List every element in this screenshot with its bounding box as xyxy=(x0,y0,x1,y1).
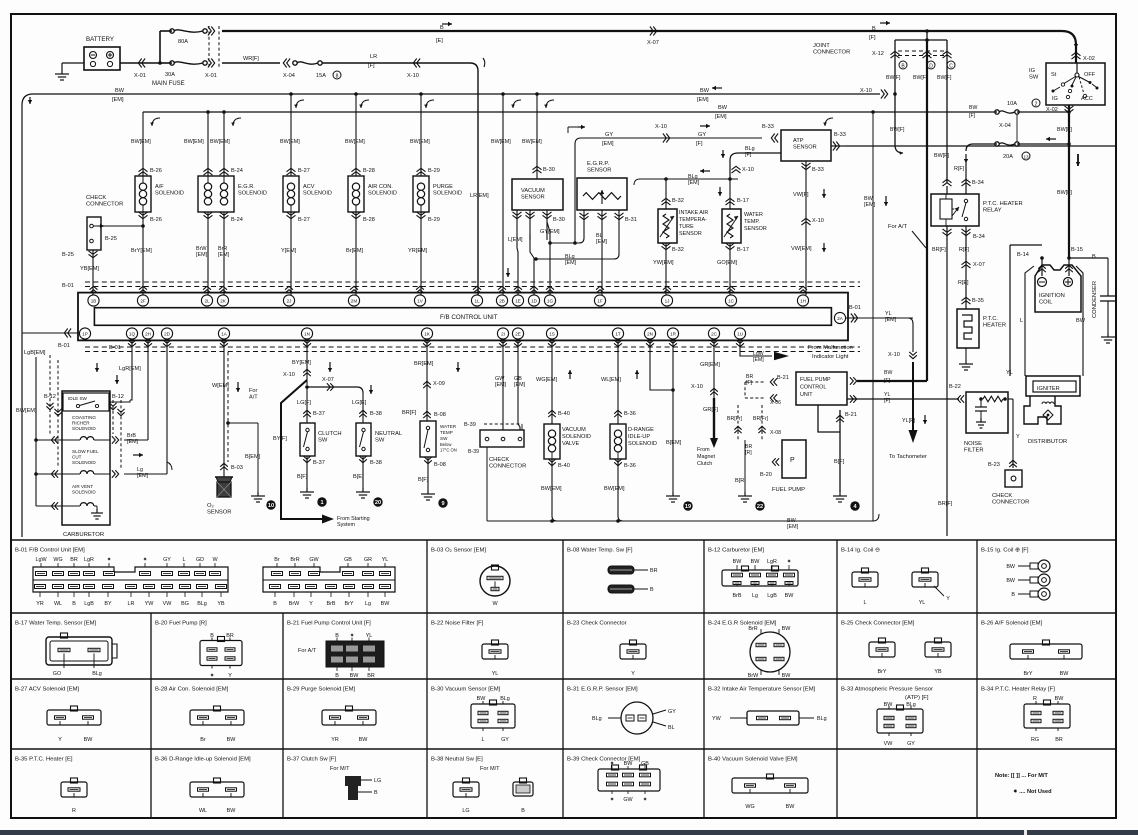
svg-text:BW: BW xyxy=(786,804,796,810)
water temperature sensor B-17 xyxy=(729,179,731,209)
svg-text:⁕: ⁕ xyxy=(210,673,215,679)
wire check connector to ground bus xyxy=(486,447,488,521)
svg-text:YL: YL xyxy=(1006,370,1013,376)
svg-text:[F]: [F] xyxy=(696,141,703,147)
svg-text:BLg: BLg xyxy=(745,146,755,152)
wire 1P exit left xyxy=(22,332,80,334)
wire BW[F] heavy from joint connector D to FPCU xyxy=(857,380,927,382)
svg-text:⁕: ⁕ xyxy=(787,559,792,565)
svg-text:[F]: [F] xyxy=(746,380,753,386)
svg-text:X-12: X-12 xyxy=(872,51,884,57)
svg-text:B-17: B-17 xyxy=(737,247,749,253)
svg-text:COIL: COIL xyxy=(1039,300,1053,306)
svg-text:UNIT: UNIT xyxy=(800,392,813,398)
svg-text:SOLENOID: SOLENOID xyxy=(628,441,657,447)
svg-text:CONTROL: CONTROL xyxy=(800,384,826,390)
noise filter B-22 xyxy=(966,392,1008,433)
coasting richer output to 2H xyxy=(112,436,115,444)
svg-text:SENSOR: SENSOR xyxy=(207,510,231,516)
svg-text:2A: 2A xyxy=(837,316,844,321)
svg-text:BLg: BLg xyxy=(688,174,698,180)
B-01 connector strip left block xyxy=(33,567,228,592)
svg-text:B-39: B-39 xyxy=(468,449,479,455)
svg-text:[EM]: [EM] xyxy=(596,239,608,245)
svg-text:B[F]: B[F] xyxy=(297,474,308,480)
svg-text:1V: 1V xyxy=(417,298,424,303)
svg-text:B-28: B-28 xyxy=(363,217,375,223)
wire R[F] down to PTC relay xyxy=(965,163,967,194)
wire LR[F] to X-10 xyxy=(322,62,470,64)
svg-text:B-03 O₂ Sensor [EM]: B-03 O₂ Sensor [EM] xyxy=(431,548,486,554)
svg-text:B-33: B-33 xyxy=(812,167,824,173)
svg-text:LgB: LgB xyxy=(84,601,94,607)
wire B-22 line FPCU to noise filter xyxy=(847,398,959,400)
svg-text:From Malfunction: From Malfunction xyxy=(808,345,853,351)
wires into FPCU left xyxy=(774,378,777,386)
svg-text:X-10: X-10 xyxy=(888,352,900,358)
svg-text:WR[F]: WR[F] xyxy=(243,56,259,62)
svg-text:PURGE: PURGE xyxy=(433,184,453,190)
svg-text:NOISE: NOISE xyxy=(964,441,982,447)
svg-text:2K: 2K xyxy=(220,298,227,303)
svg-text:BW[F]: BW[F] xyxy=(934,153,949,159)
svg-text:B-35: B-35 xyxy=(972,298,984,304)
ground water temp sw xyxy=(427,490,429,494)
svg-text:B-01: B-01 xyxy=(849,305,861,311)
svg-text:VW[EM]: VW[EM] xyxy=(791,246,812,252)
svg-text:L[EM]: L[EM] xyxy=(508,237,523,243)
svg-text:GO[EM]: GO[EM] xyxy=(717,260,738,266)
svg-text:WG[EM]: WG[EM] xyxy=(536,377,558,383)
svg-text:[EM]: [EM] xyxy=(602,141,614,147)
svg-text:2I: 2I xyxy=(501,331,505,336)
svg-text:For A/T: For A/T xyxy=(298,648,317,654)
ground PTC heater xyxy=(965,360,967,364)
svg-text:[F]: [F] xyxy=(884,398,891,404)
svg-text:RICHER: RICHER xyxy=(72,420,90,425)
svg-text:LR[EM]: LR[EM] xyxy=(470,193,489,199)
F/B control unit xyxy=(78,293,848,341)
svg-text:D: D xyxy=(929,64,933,70)
IG switch xyxy=(1046,63,1105,105)
svg-text:X-10: X-10 xyxy=(742,167,754,173)
svg-text:X-07: X-07 xyxy=(973,262,985,268)
svg-text:B-03: B-03 xyxy=(231,465,243,471)
wire drop to A/F solenoid xyxy=(142,112,144,176)
svg-text:COASTING: COASTING xyxy=(72,415,96,420)
wire WR[F] 15A branch xyxy=(222,62,280,64)
svg-text:CHECK: CHECK xyxy=(86,195,106,201)
svg-text:A/F: A/F xyxy=(155,184,164,190)
svg-text:BR[F]: BR[F] xyxy=(402,410,417,416)
svg-text:LgR: LgR xyxy=(767,559,777,565)
svg-text:1S: 1S xyxy=(549,331,555,336)
table grid xyxy=(11,539,1116,541)
svg-text:⁕: ⁕ xyxy=(610,797,615,803)
wire LgR[EM] from 1Q xyxy=(131,339,133,385)
svg-text:ATP: ATP xyxy=(793,138,804,144)
svg-text:Y: Y xyxy=(228,673,232,679)
connector X-01 after fuses (dashed gang) xyxy=(208,27,211,36)
svg-text:B-30: B-30 xyxy=(553,217,565,223)
svg-text:B-36: B-36 xyxy=(624,411,636,417)
svg-text:R: R xyxy=(72,808,76,814)
svg-text:BW: BW xyxy=(884,702,894,708)
solenoid E.G.R. B-24 xyxy=(204,172,213,175)
svg-text:⁕: ⁕ xyxy=(643,797,648,803)
svg-text:B-23: B-23 xyxy=(988,462,1000,468)
svg-text:B-21: B-21 xyxy=(845,412,857,418)
svg-text:To Tachometer: To Tachometer xyxy=(889,454,927,460)
svg-text:1L: 1L xyxy=(474,298,480,303)
svg-text:AIR VENT: AIR VENT xyxy=(72,484,93,489)
svg-text:B: B xyxy=(1092,254,1096,260)
wire battery to X-01 xyxy=(120,62,160,64)
svg-text:SENSOR: SENSOR xyxy=(679,231,702,237)
svg-text:LgW: LgW xyxy=(35,557,47,563)
svg-text:GW: GW xyxy=(623,797,633,803)
svg-text:YL: YL xyxy=(885,311,892,317)
svg-text:X-10: X-10 xyxy=(283,372,295,378)
svg-text:B-23 Check Connector: B-23 Check Connector xyxy=(567,621,627,627)
svg-text:1K: 1K xyxy=(424,331,431,336)
svg-text:L: L xyxy=(1020,318,1023,324)
svg-text:YL: YL xyxy=(919,600,926,606)
svg-text:B-20 Fuel Pump [R]: B-20 Fuel Pump [R] xyxy=(155,621,207,627)
svg-text:B-36: B-36 xyxy=(624,463,636,469)
svg-text:YL: YL xyxy=(382,557,389,563)
svg-text:X-10: X-10 xyxy=(860,88,872,94)
svg-text:B-39: B-39 xyxy=(464,422,476,428)
svg-text:⁕ .... Not Used: ⁕ .... Not Used xyxy=(1013,789,1052,795)
wires GW GB to check connector xyxy=(502,339,504,430)
svg-text:GW: GW xyxy=(309,557,319,563)
wire W[EM] from 1A to O2 sensor xyxy=(223,339,225,477)
svg-text:B: B xyxy=(273,601,277,607)
wire B[E] heavy top line xyxy=(222,30,1062,32)
svg-text:1B: 1B xyxy=(91,298,97,303)
svg-text:10: 10 xyxy=(268,503,274,509)
svg-text:BATTERY: BATTERY xyxy=(86,36,114,43)
svg-text:BW[EM]: BW[EM] xyxy=(280,139,300,145)
svg-text:BW: BW xyxy=(359,737,369,743)
svg-text:SOLENOID: SOLENOID xyxy=(238,190,267,196)
svg-text:1A: 1A xyxy=(221,331,228,336)
connector X-10 xyxy=(417,59,420,68)
svg-text:BLg: BLg xyxy=(500,696,510,702)
svg-text:B-38: B-38 xyxy=(370,411,382,417)
wire BW[EM] bus lower xyxy=(143,111,997,113)
svg-text:BR[Fr]: BR[Fr] xyxy=(727,416,743,422)
svg-text:2M: 2M xyxy=(351,298,358,303)
svg-text:X-09: X-09 xyxy=(433,381,445,387)
svg-text:B-14 Ig. Coil ⊖: B-14 Ig. Coil ⊖ xyxy=(841,548,880,554)
wire BrB from 2H xyxy=(147,339,149,440)
svg-text:IGNITION: IGNITION xyxy=(1039,293,1065,299)
svg-text:BW: BW xyxy=(1060,671,1070,677)
svg-text:B-14: B-14 xyxy=(1017,252,1029,258)
svg-text:[F]: [F] xyxy=(869,35,876,41)
svg-text:Y: Y xyxy=(1016,434,1020,440)
svg-text:B-40 Vacuum Solenoid Valve [EM: B-40 Vacuum Solenoid Valve [EM] xyxy=(708,757,798,763)
svg-text:Lg: Lg xyxy=(137,467,143,473)
svg-text:GD: GD xyxy=(196,557,204,563)
svg-text:Y: Y xyxy=(946,596,950,602)
svg-text:B[EM]: B[EM] xyxy=(666,440,682,446)
svg-text:B-21 Fuel Pump Control Unit [F: B-21 Fuel Pump Control Unit [F] xyxy=(287,621,371,627)
svg-text:BW: BW xyxy=(1076,318,1086,324)
wire X-07 branch to neutral sw xyxy=(305,385,309,389)
svg-text:2: 2 xyxy=(1035,102,1038,108)
svg-text:VALVE: VALVE xyxy=(562,441,579,447)
svg-text:SLOW FUEL: SLOW FUEL xyxy=(72,449,99,454)
svg-text:2B: 2B xyxy=(499,298,505,303)
svg-text:X-10: X-10 xyxy=(655,124,667,130)
svg-text:Br: Br xyxy=(200,737,206,743)
svg-text:BW: BW xyxy=(227,808,237,814)
svg-text:B-27 ACV Solenoid [EM]: B-27 ACV Solenoid [EM] xyxy=(15,687,80,693)
svg-text:X-10: X-10 xyxy=(691,384,703,390)
svg-text:BW: BW xyxy=(733,559,743,565)
connector X-07 on top line xyxy=(650,27,653,36)
svg-text:YR: YR xyxy=(36,601,44,607)
svg-text:RELAY: RELAY xyxy=(983,208,1002,214)
svg-text:YB: YB xyxy=(217,601,225,607)
svg-text:B-26: B-26 xyxy=(150,217,162,223)
svg-text:B-40: B-40 xyxy=(558,463,570,469)
svg-text:GY: GY xyxy=(907,741,915,747)
svg-text:1J: 1J xyxy=(665,298,670,303)
svg-text:NEUTRAL: NEUTRAL xyxy=(375,431,403,437)
solenoid PURGE B-29 xyxy=(417,172,426,175)
svg-text:20A: 20A xyxy=(1003,154,1013,160)
svg-text:BR: BR xyxy=(650,568,658,574)
svg-text:SW: SW xyxy=(318,438,328,444)
svg-text:LR: LR xyxy=(128,601,135,607)
svg-text:GY: GY xyxy=(605,132,613,138)
svg-text:LG: LG xyxy=(374,778,381,784)
wire B-25 down YB[EM] xyxy=(89,251,98,254)
svg-text:For: For xyxy=(249,388,258,394)
svg-text:WL[EM]: WL[EM] xyxy=(601,377,621,383)
water temp switch B-08 xyxy=(420,421,436,457)
svg-text:GR[F]: GR[F] xyxy=(703,407,718,413)
svg-text:SENSOR: SENSOR xyxy=(521,194,545,200)
svg-text:GO: GO xyxy=(53,671,61,677)
svg-text:HEATER: HEATER xyxy=(983,323,1006,329)
svg-text:LgR: LgR xyxy=(84,557,94,563)
svg-text:Y: Y xyxy=(309,601,313,607)
svg-text:BW: BW xyxy=(1006,578,1016,584)
fuse 15A xyxy=(293,61,297,65)
svg-text:1F: 1F xyxy=(597,298,603,303)
svg-text:B: B xyxy=(521,808,525,814)
svg-text:SENSOR: SENSOR xyxy=(744,226,767,232)
svg-text:BW: BW xyxy=(864,196,874,202)
svg-text:BW[EM]: BW[EM] xyxy=(131,139,151,145)
fuse 30A MAIN FUSE xyxy=(160,62,172,64)
svg-text:B-30: B-30 xyxy=(543,167,555,173)
svg-text:B-29 Purge Solenoid [EM]: B-29 Purge Solenoid [EM] xyxy=(287,687,355,693)
svg-text:15A: 15A xyxy=(316,73,326,79)
svg-text:B-27: B-27 xyxy=(298,217,310,223)
svg-text:2F: 2F xyxy=(140,298,146,303)
svg-text:80A: 80A xyxy=(178,39,188,45)
svg-text:P: P xyxy=(790,457,795,464)
svg-text:Below: Below xyxy=(440,442,452,447)
svg-text:17°C ON: 17°C ON xyxy=(440,448,457,453)
wire ATP output to right xyxy=(846,145,1116,147)
svg-text:BW: BW xyxy=(381,601,391,607)
svg-text:GR: GR xyxy=(364,557,372,563)
svg-text:B-25: B-25 xyxy=(105,236,117,242)
igniter xyxy=(1026,376,1080,396)
wire drops from buses to solenoids xyxy=(207,112,209,176)
svg-text:9: 9 xyxy=(441,501,444,507)
svg-text:WATER: WATER xyxy=(744,212,763,218)
svg-text:X-08: X-08 xyxy=(770,430,781,436)
svg-text:B-36 D-Range Idle-up Solenoid: B-36 D-Range Idle-up Solenoid [EM] xyxy=(155,757,251,763)
svg-text:B-24: B-24 xyxy=(231,217,243,223)
svg-text:[EM]: [EM] xyxy=(565,260,577,266)
slow fuel cut output to 2D xyxy=(112,470,115,478)
dashed B-01 boundary below bottom pins xyxy=(85,346,860,348)
svg-text:B-01: B-01 xyxy=(109,345,121,351)
svg-text:B-29: B-29 xyxy=(428,217,440,223)
svg-text:RG: RG xyxy=(1031,737,1039,743)
svg-text:FILTER: FILTER xyxy=(964,448,984,454)
svg-text:BW: BW xyxy=(884,370,892,376)
svg-text:BW[F]: BW[F] xyxy=(886,75,901,81)
svg-text:[EM]: [EM] xyxy=(864,202,876,208)
wires vacuum sensor to pins xyxy=(517,240,518,295)
wire GR[EM] from 2C to magnet clutch xyxy=(713,339,715,400)
svg-text:SOLENOID: SOLENOID xyxy=(155,190,184,196)
svg-text:E.G.R.P.: E.G.R.P. xyxy=(587,161,610,167)
wire BLg[EM] junction line xyxy=(640,178,738,180)
svg-text:L: L xyxy=(183,557,186,563)
svg-text:IDLE-UP: IDLE-UP xyxy=(628,434,650,440)
svg-text:BW[F]: BW[F] xyxy=(1057,127,1072,133)
fuel pump B-20 xyxy=(776,458,779,466)
svg-text:O₂: O₂ xyxy=(207,503,214,509)
svg-text:B-25 Check Connector [EM]: B-25 Check Connector [EM] xyxy=(841,621,915,627)
bottom dark bar xyxy=(0,830,1138,835)
top pin row of F/B control unit xyxy=(88,295,99,306)
svg-text:B: B xyxy=(872,26,876,32)
svg-text:BW: BW xyxy=(969,105,977,111)
svg-text:BW: BW xyxy=(700,88,710,94)
svg-text:X-10: X-10 xyxy=(812,218,824,224)
svg-text:BR: BR xyxy=(1055,737,1063,743)
svg-text:L: L xyxy=(482,737,485,743)
svg-text:B-34: B-34 xyxy=(973,234,985,240)
svg-text:[EM]: [EM] xyxy=(495,382,507,388)
svg-text:B-32: B-32 xyxy=(672,247,684,253)
svg-text:X-04: X-04 xyxy=(283,73,295,79)
svg-text:1Q: 1Q xyxy=(129,331,136,336)
svg-text:BW: BW xyxy=(624,761,634,767)
svg-text:B-22: B-22 xyxy=(949,384,961,390)
connector B-35 xyxy=(962,301,971,304)
svg-text:R[F]: R[F] xyxy=(959,247,970,253)
svg-text:20: 20 xyxy=(375,500,381,506)
svg-text:X-01: X-01 xyxy=(205,73,217,79)
ground in carburetor xyxy=(96,506,98,509)
svg-text:WATER: WATER xyxy=(440,424,457,429)
connector X-04 xyxy=(287,59,290,68)
svg-text:B: B xyxy=(440,25,444,31)
ground O2 xyxy=(257,492,259,496)
svg-text:GY: GY xyxy=(698,132,706,138)
svg-text:BW: BW xyxy=(1055,696,1065,702)
svg-text:TURE: TURE xyxy=(679,224,694,230)
wires below FPCU to fuel pump xyxy=(737,405,739,440)
chevrons below bottom pins xyxy=(128,340,136,343)
svg-text:VW[F]: VW[F] xyxy=(793,192,809,198)
svg-text:YB: YB xyxy=(934,669,942,675)
svg-text:B-17: B-17 xyxy=(737,198,749,204)
svg-text:B-30 Vacuum Sensor [EM]: B-30 Vacuum Sensor [EM] xyxy=(431,687,501,693)
svg-text:(ATP) [F]: (ATP) [F] xyxy=(905,695,929,701)
svg-text:30A: 30A xyxy=(165,72,175,78)
svg-text:BrY: BrY xyxy=(345,601,354,607)
svg-text:1R: 1R xyxy=(670,331,677,336)
svg-text:Br: Br xyxy=(274,557,280,563)
svg-text:B-28: B-28 xyxy=(363,168,375,174)
svg-text:B-24 E.G.R Solenoid [EM]: B-24 E.G.R Solenoid [EM] xyxy=(708,621,777,627)
svg-text:B-12 Carburetor [EM]: B-12 Carburetor [EM] xyxy=(708,548,764,554)
svg-text:BrR: BrR xyxy=(218,246,227,252)
svg-text:BLg: BLg xyxy=(817,716,827,722)
svg-text:WG: WG xyxy=(53,557,62,563)
fuse 80A xyxy=(170,29,174,33)
svg-text:W[EM]: W[EM] xyxy=(212,383,229,389)
node bus taps xyxy=(289,92,293,96)
svg-text:GB: GB xyxy=(514,376,522,382)
svg-text:CUT: CUT xyxy=(72,454,82,459)
svg-text:B-33: B-33 xyxy=(834,132,846,138)
connector X-02 xyxy=(1072,56,1081,59)
idle switch xyxy=(63,393,109,411)
connector X-01 xyxy=(142,59,145,68)
svg-text:SOLENOID: SOLENOID xyxy=(303,190,332,196)
svg-text:BW: BW xyxy=(227,737,237,743)
wire ATP down to 1H xyxy=(805,161,807,295)
svg-text:F/B CONTROL UNIT: F/B CONTROL UNIT xyxy=(440,314,498,321)
svg-text:B[F]: B[F] xyxy=(418,477,429,483)
svg-text:SENSOR: SENSOR xyxy=(587,168,611,174)
svg-text:Y[EM]: Y[EM] xyxy=(281,248,297,254)
svg-text:1P: 1P xyxy=(82,331,88,336)
svg-text:LG: LG xyxy=(462,808,469,814)
svg-text:Y: Y xyxy=(58,737,62,743)
svg-text:LgR[EM]: LgR[EM] xyxy=(119,366,141,372)
svg-text:BW[EM]: BW[EM] xyxy=(345,139,365,145)
svg-text:B-28 Air Con. Solenoid [EM]: B-28 Air Con. Solenoid [EM] xyxy=(155,687,229,693)
svg-text:R[F]: R[F] xyxy=(954,166,965,172)
svg-text:B-32: B-32 xyxy=(672,198,684,204)
svg-text:Clutch: Clutch xyxy=(697,461,712,467)
svg-text:GY: GY xyxy=(668,709,676,715)
svg-text:B-37: B-37 xyxy=(313,460,325,466)
svg-text:CONDENSER: CONDENSER xyxy=(1092,281,1098,318)
svg-text:B-22 Noise Filter [F]: B-22 Noise Filter [F] xyxy=(431,621,484,627)
svg-text:BR[F]: BR[F] xyxy=(932,247,946,253)
svg-text:From: From xyxy=(697,447,710,453)
svg-text:BW[EM]: BW[EM] xyxy=(541,486,562,492)
svg-text:LG[F]: LG[F] xyxy=(297,400,311,406)
